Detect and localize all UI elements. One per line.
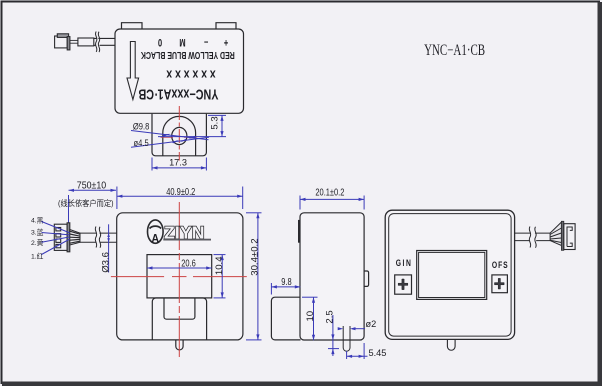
svg-text:M: M — [179, 37, 185, 49]
bottom boss rectangle (hole tab) — [152, 114, 206, 156]
front connector housing with pins — [54, 223, 69, 252]
top view left mounting tab — [122, 23, 143, 29]
cable entry marks on left edge — [298, 220, 300, 243]
svg-text:(线长依客户而定): (线长依客户而定) — [58, 198, 114, 208]
boss recess (front) — [164, 298, 195, 319]
svg-text:17.3: 17.3 — [169, 158, 187, 168]
svg-text:YNC−A1·CB: YNC−A1·CB — [424, 42, 485, 59]
cable lines — [94, 37, 115, 39]
top view cable to body — [70, 38, 115, 46]
dimension 750+-10 (cable length) — [69, 189, 117, 223]
dimension 10 (tab height) — [302, 297, 318, 340]
bottom boss (front) — [152, 298, 206, 340]
dimension leader O4.5 — [131, 137, 209, 147]
svg-text:–: – — [204, 37, 208, 49]
svg-text:RED YELLOW BLUE BLACK: RED YELLOW BLUE BLACK — [140, 49, 235, 61]
connector flange — [67, 223, 70, 252]
dimension 40.9+-0.2 (front width) — [117, 187, 243, 210]
OFS cross screw — [495, 278, 505, 289]
front view window opening — [147, 255, 212, 298]
dimension 10.4 (window height) — [214, 255, 226, 298]
logo letters ZIYN (outlined) — [164, 223, 205, 243]
top view right mounting tab — [216, 23, 236, 29]
rotated label text rows — [138, 37, 234, 103]
svg-text:2.5: 2.5 — [325, 310, 336, 323]
strain relief trapezoid (front) — [70, 230, 80, 246]
svg-text:ø4.5: ø4.5 — [134, 137, 149, 148]
cable break symbol (front) — [95, 227, 101, 248]
sleeve — [78, 38, 94, 46]
svg-text:20.6: 20.6 — [181, 257, 196, 268]
svg-text:A: A — [151, 233, 159, 246]
back connector housing — [564, 224, 575, 250]
dimension 20.1+-0.2 (side width) — [300, 196, 364, 210]
back view outer shell — [385, 210, 514, 339]
red centerlines of hole (top view) — [161, 106, 197, 161]
logo: circle with A — [148, 220, 164, 243]
dimension leader O9.8 — [131, 131, 209, 140]
svg-text:40.9±0.2: 40.9±0.2 — [166, 186, 195, 197]
arch (dome) outline inside boss — [163, 116, 196, 155]
top view connector housing — [55, 34, 70, 50]
dimension 17.3 (boss width) — [152, 158, 206, 171]
dimension 2.5 (pin offset) — [328, 315, 339, 356]
back connector flange — [561, 221, 563, 250]
side view body outline — [300, 213, 364, 340]
back connector strain relief — [550, 222, 561, 245]
dimension O3.6 (cable dia) — [107, 224, 110, 272]
svg-text:OFS: OFS — [492, 260, 509, 270]
side view left lower tab — [271, 297, 300, 340]
back view bottom pin stub — [447, 339, 455, 350]
dimension 30.4+-0.2 (front height) — [246, 213, 262, 340]
svg-text:4.黑: 4.黑 — [31, 216, 44, 224]
svg-text:9.8: 9.8 — [281, 276, 291, 287]
GIN adjuster square — [395, 275, 412, 294]
dimension O2 (pin dia) — [338, 327, 365, 330]
dimension 5.3 (right of boss) — [158, 115, 226, 136]
svg-text:20.1±0.2: 20.1±0.2 — [315, 186, 344, 197]
cable break symbol (back) — [529, 227, 536, 248]
svg-text:Ø9.8: Ø9.8 — [133, 121, 150, 132]
back cable lines — [515, 233, 551, 241]
back view inner shell — [389, 214, 511, 337]
GIN cross screw — [398, 279, 408, 290]
svg-text:ø2: ø2 — [366, 319, 377, 329]
svg-text:5.3: 5.3 — [210, 116, 221, 129]
svg-text:0: 0 — [158, 37, 162, 49]
svg-text:10.4: 10.4 — [214, 256, 225, 275]
wire label leader lines — [42, 222, 70, 255]
cable break symbol (top view) — [95, 32, 99, 53]
back connector latch bracket — [567, 227, 572, 247]
dimension 9.8 (tab depth) — [271, 283, 300, 295]
side right bump — [364, 271, 369, 286]
OFS adjuster square — [492, 275, 508, 293]
front cable lines — [80, 233, 117, 242]
svg-text:x x x x x x: x x x x x x — [166, 67, 216, 81]
svg-text:YNC−xxxA1·CB: YNC−xxxA1·CB — [138, 86, 218, 103]
bottom pin (front) — [176, 340, 183, 350]
logo underline — [163, 239, 211, 241]
wire color labels — [31, 216, 44, 260]
svg-text:GIN: GIN — [396, 258, 413, 268]
top view body outline — [115, 29, 244, 113]
svg-text:1.红: 1.红 — [31, 252, 44, 261]
back window inner — [419, 252, 485, 297]
back window outer — [417, 251, 487, 300]
dimension 20.6 (window width) — [147, 266, 212, 269]
svg-text:750±10: 750±10 — [77, 180, 106, 192]
svg-text:Ø3.6: Ø3.6 — [100, 252, 111, 273]
direction arrow on label — [127, 42, 139, 100]
svg-text:10: 10 — [305, 311, 316, 322]
svg-text:30.4±0.2: 30.4±0.2 — [249, 238, 260, 275]
svg-text:+: + — [223, 37, 228, 49]
front view red vertical centerline — [178, 202, 180, 357]
center hole ellipse — [172, 127, 187, 144]
dimension 5.45 (pin to edge) — [347, 343, 368, 359]
front view red horizontal centerline — [111, 276, 247, 278]
front view body outline — [117, 213, 243, 340]
side pin — [343, 326, 350, 351]
svg-text:5.45: 5.45 — [369, 348, 387, 358]
